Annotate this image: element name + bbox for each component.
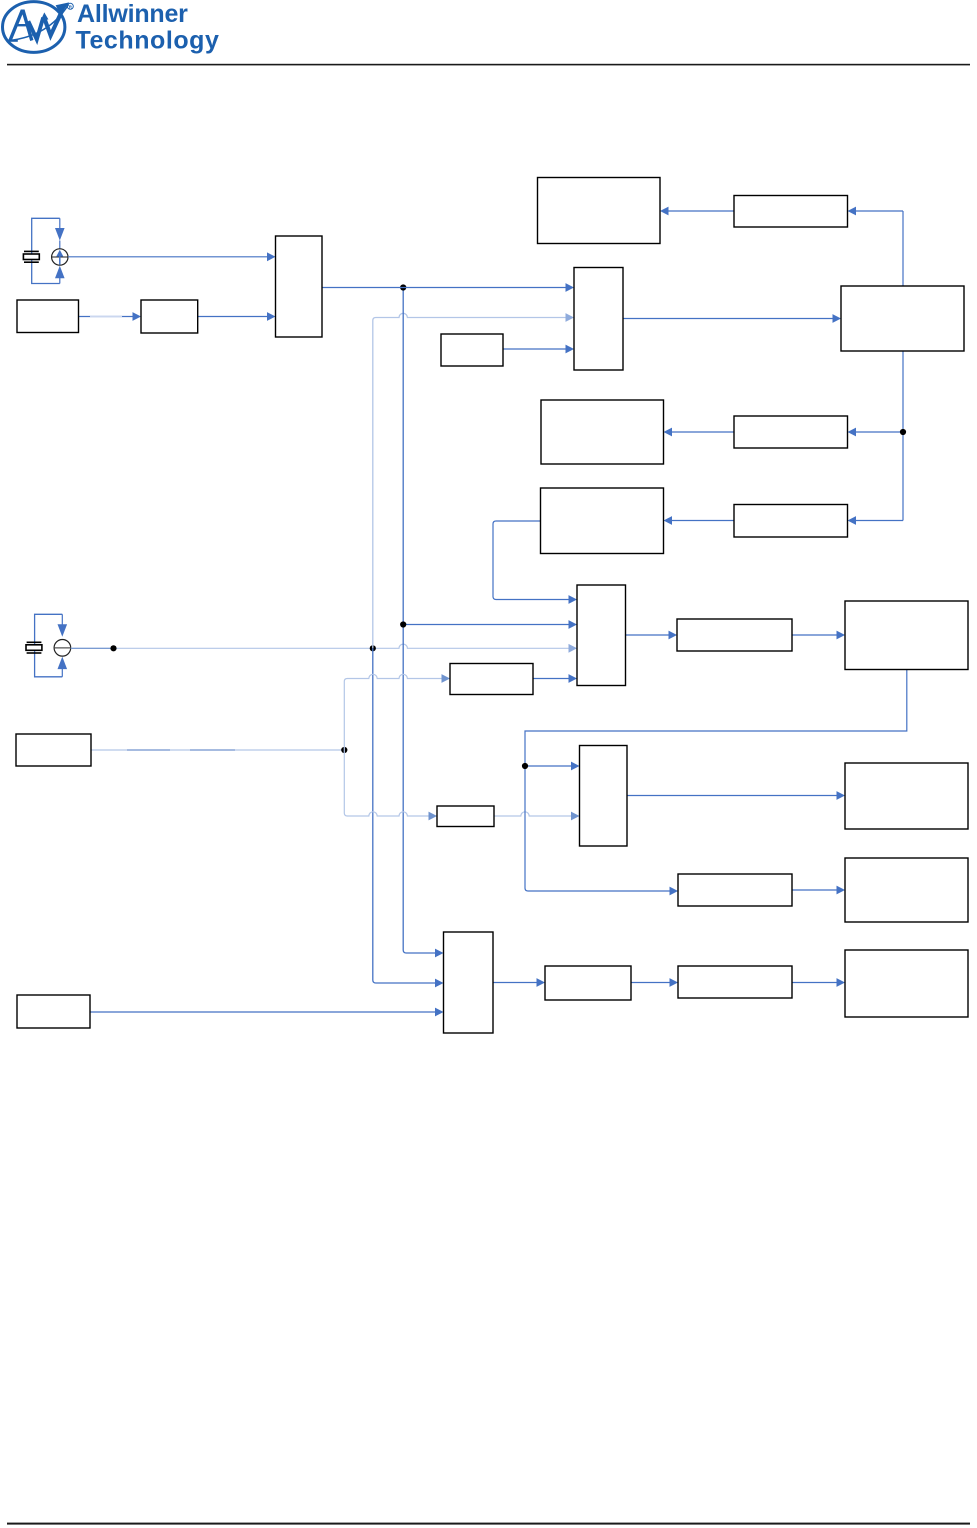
svg-text:Allwinner: Allwinner	[77, 0, 188, 28]
svg-text:Technology: Technology	[76, 27, 220, 55]
